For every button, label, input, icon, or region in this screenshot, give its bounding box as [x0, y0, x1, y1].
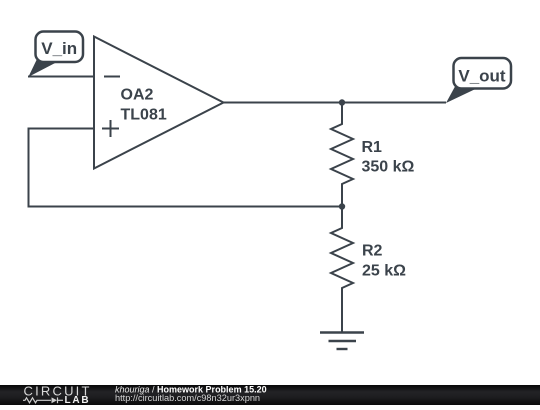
wire: feedback vertical segment [28, 128, 30, 207]
svg-text:R2: R2 [362, 243, 383, 260]
ground [320, 333, 364, 350]
svg-text:V_out: V_out [458, 67, 506, 86]
resistor R1 [331, 103, 353, 207]
svg-text:OA2: OA2 [121, 87, 154, 104]
svg-text:http://circuitlab.com/c98n32ur: http://circuitlab.com/c98n32ur3xpnn [115, 393, 260, 403]
svg-text:TL081: TL081 [121, 107, 167, 124]
footer bar [0, 385, 540, 405]
net label V_out balloon [446, 58, 511, 103]
net label V_in balloon [28, 32, 83, 77]
node A: output junction dot [339, 99, 345, 105]
op-amp inverting pin minus sign [104, 76, 120, 78]
CircuitLab logo circuit doodle [23, 397, 63, 403]
svg-text:R1: R1 [362, 139, 383, 156]
op-amp non-inverting pin plus sign [102, 120, 119, 137]
resistor R2 [331, 207, 353, 333]
wire: feedback horizontal segment to node B [28, 206, 343, 208]
op-amp OA2 TL081 [94, 37, 224, 169]
svg-text:V_in: V_in [41, 39, 77, 58]
svg-text:350 kΩ: 350 kΩ [362, 159, 415, 176]
wire: non-inverting input horizontal [29, 128, 95, 130]
svg-text:25 kΩ: 25 kΩ [362, 263, 406, 280]
svg-text:LAB: LAB [65, 395, 91, 405]
wire: op-amp output to V_out [224, 102, 447, 104]
node B: feedback junction dot [339, 203, 345, 209]
wire: inverting input from V_in to op-amp [28, 76, 94, 78]
